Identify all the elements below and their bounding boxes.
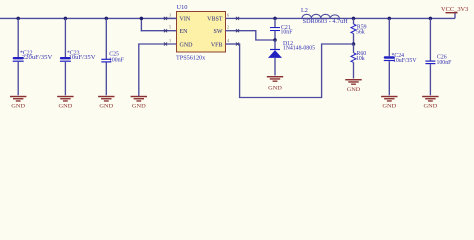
wire SW net — [240, 31, 276, 40]
ground C25 — [98, 96, 114, 110]
svg-text:U10: U10 — [177, 4, 188, 11]
svg-text:SW: SW — [214, 29, 223, 35]
wire IC gnd pin — [139, 44, 177, 95]
pin VFB 4 — [211, 38, 240, 48]
node input rail junction EN — [140, 17, 144, 21]
pin GND 1 — [164, 38, 193, 48]
svg-text:VIN: VIN — [180, 17, 191, 23]
svg-text:100nF: 100nF — [437, 60, 453, 66]
svg-text:GND: GND — [347, 87, 361, 93]
svg-text:6: 6 — [227, 12, 229, 17]
svg-text:100nF: 100nF — [109, 58, 125, 64]
svg-text:10uF/35V: 10uF/35V — [393, 58, 417, 64]
svg-text:SDR0603 - 4.7uH: SDR0603 - 4.7uH — [303, 19, 349, 25]
node VFB/R59/R60 junction — [352, 42, 356, 46]
svg-text:56k: 56k — [356, 30, 365, 36]
svg-text:GND: GND — [99, 104, 113, 110]
node R59 junction — [352, 17, 356, 21]
power VCC_3V3 — [441, 6, 468, 19]
ground C26 — [422, 96, 438, 110]
capacitor C26 — [425, 18, 452, 95]
svg-text:VBST: VBST — [207, 17, 223, 23]
ground U10 — [131, 96, 147, 110]
node input rail junction C23 — [64, 17, 68, 21]
resistor R59 — [351, 18, 367, 44]
svg-text:EN: EN — [180, 29, 189, 35]
svg-text:5: 5 — [169, 25, 171, 30]
svg-text:2: 2 — [227, 25, 229, 30]
svg-text:GND: GND — [11, 104, 25, 110]
capacitor C22 — [13, 18, 54, 95]
resistor R60 — [351, 44, 366, 79]
capacitor C24 — [384, 18, 418, 95]
diode D12 — [268, 40, 315, 76]
pin SW 2 — [214, 25, 240, 35]
svg-text:TPS56120x: TPS56120x — [176, 55, 206, 62]
svg-text:3: 3 — [169, 12, 171, 17]
svg-text:1: 1 — [169, 38, 171, 43]
svg-text:GND: GND — [268, 85, 282, 91]
node input rail junction C25 — [105, 17, 109, 21]
ground C22 — [10, 96, 26, 110]
svg-text:GND: GND — [59, 104, 73, 110]
capacitor C23 — [60, 18, 97, 95]
wire VFB feedback — [240, 44, 354, 98]
ground C23 — [57, 96, 73, 110]
svg-text:10uF/35V: 10uF/35V — [69, 55, 97, 61]
wire VBST to L2 — [240, 17, 456, 19]
svg-text:10nF: 10nF — [281, 29, 294, 35]
wire input rail — [0, 17, 177, 19]
svg-text:GND: GND — [180, 42, 194, 48]
node VBST/C21 junction — [273, 17, 277, 21]
svg-text:VFB: VFB — [211, 42, 223, 48]
svg-text:4: 4 — [227, 38, 230, 43]
svg-text:10k: 10k — [356, 56, 365, 62]
svg-text:L2: L2 — [301, 7, 308, 14]
wire EN horizontal — [141, 30, 176, 32]
ground R60 — [345, 79, 361, 93]
node C24 junction — [388, 17, 392, 21]
node C26 junction — [429, 17, 433, 21]
capacitor C25 — [101, 18, 124, 95]
capacitor C21 — [270, 18, 293, 40]
svg-text:220uF/35V: 220uF/35V — [22, 55, 53, 61]
node SW/C21/D12 junction — [273, 38, 277, 42]
op-amp U10 body — [176, 4, 226, 62]
svg-text:GND: GND — [424, 104, 438, 110]
svg-text:GND: GND — [132, 104, 146, 110]
ground D12 — [267, 76, 283, 91]
pin VIN 3 — [163, 12, 191, 22]
ground C24 — [381, 96, 397, 110]
pin VBST 6 — [207, 12, 239, 22]
pin EN 5 — [164, 25, 188, 35]
svg-text:1N4148-0805: 1N4148-0805 — [283, 46, 315, 52]
node input rail junction C22 — [16, 17, 20, 21]
wire EN step vertical — [140, 18, 142, 30]
inductor L2 — [301, 7, 349, 25]
svg-text:GND: GND — [382, 104, 396, 110]
svg-text:VCC_3V3: VCC_3V3 — [441, 6, 468, 13]
